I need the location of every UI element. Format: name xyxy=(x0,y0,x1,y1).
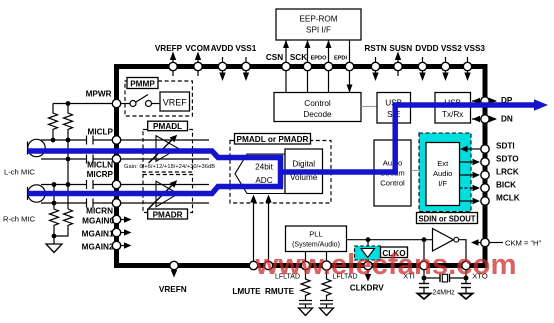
wire EPDI net (EEPROM to Control Decode) xyxy=(347,40,353,93)
PMADR block (dashed) xyxy=(143,175,193,213)
svg-text:PMADL: PMADL xyxy=(153,122,182,131)
label box PMADL xyxy=(148,121,188,131)
Audio Stream Control block xyxy=(374,140,411,206)
svg-text:VREFN: VREFN xyxy=(159,285,187,294)
ground (XTO load cap) xyxy=(460,288,473,300)
wire XTI to crystal xyxy=(423,270,425,284)
Control Decode block xyxy=(274,93,361,122)
pin MGAIN1 xyxy=(82,228,132,238)
pin SDTI xyxy=(481,142,515,154)
junction bias/MICLP xyxy=(66,138,71,143)
PLL block xyxy=(286,226,347,252)
svg-text:VSS3: VSS3 xyxy=(464,44,485,53)
pin LFLTAD (left) xyxy=(275,261,310,280)
pin MICRN xyxy=(86,199,121,216)
pin SCK xyxy=(290,53,312,71)
CLKO buffer (cyan dashed) xyxy=(355,246,381,260)
pin MCLK xyxy=(481,194,520,206)
pin LMUTE xyxy=(232,261,261,296)
svg-text:ADC: ADC xyxy=(255,176,272,185)
svg-text:LRCK: LRCK xyxy=(496,168,519,177)
pin VREFP xyxy=(155,44,183,76)
capacitor C4 (MICRN coupling) xyxy=(87,199,94,208)
ground (LFLTAD left) xyxy=(299,308,313,316)
pin VCOM xyxy=(185,44,210,76)
R-ch microphone MK2 xyxy=(28,185,46,202)
pin CSN xyxy=(266,53,290,71)
pin SDTO xyxy=(481,155,519,167)
wire PLL output to clock buffer xyxy=(347,239,433,241)
svg-text:R-ch MIC: R-ch MIC xyxy=(3,215,36,224)
svg-text:CLKDRV: CLKDRV xyxy=(350,284,385,293)
wire SDTI net (pin to Ext Audio I/F) xyxy=(460,146,481,152)
svg-text:BICK: BICK xyxy=(496,181,516,190)
PMMP block (dashed) xyxy=(125,81,192,116)
resistor R5 (LFLTAD filter) xyxy=(301,270,310,301)
crystal X1 24MHz xyxy=(424,274,466,282)
svg-text:CKM = “H”: CKM = “H” xyxy=(505,239,542,248)
wire LRCK net (Ext Audio I/F to pin) xyxy=(460,172,481,178)
svg-text:RMUTE: RMUTE xyxy=(265,287,295,296)
PMADL block (dashed) xyxy=(143,130,193,173)
svg-text:VCOM: VCOM xyxy=(185,44,210,53)
Digital Volume block xyxy=(285,149,323,194)
pin CLKDRV xyxy=(350,261,385,292)
junction XTI/crystal xyxy=(422,276,427,281)
pin VSS2 xyxy=(441,44,462,81)
svg-text:MCLK: MCLK xyxy=(496,194,520,203)
capacitor C5 (LFLTAD filter) xyxy=(299,301,312,309)
pin RMUTE xyxy=(264,261,294,296)
svg-text:Control: Control xyxy=(380,179,405,188)
pin AVDD xyxy=(211,44,234,81)
amplifier A2 (PMADR mic amp) xyxy=(149,180,178,208)
svg-text:MICLN: MICLN xyxy=(87,160,113,169)
label box SDIN or SDOUT xyxy=(417,213,478,224)
junction R2 top on MPWR rail xyxy=(66,101,71,106)
junction MICRP/column xyxy=(52,182,57,187)
wire BICK net (Ext Audio I/F to pin, dashed) xyxy=(460,185,481,191)
wire CSN net (EEPROM to Control Decode) xyxy=(283,40,289,93)
svg-text:24MHz: 24MHz xyxy=(433,290,456,297)
pin DN xyxy=(472,115,513,124)
svg-text:Digital: Digital xyxy=(292,160,315,169)
svg-text:DVDD: DVDD xyxy=(415,44,438,53)
wire MICLP net (mic to pin) xyxy=(41,139,113,141)
junction bias/MICRP xyxy=(66,182,71,187)
svg-text:I/F: I/F xyxy=(438,179,447,188)
wire XTI branch down xyxy=(423,240,425,263)
USB Tx/Rx block xyxy=(435,93,471,124)
svg-text:VSS1: VSS1 xyxy=(235,44,256,53)
svg-text:DN: DN xyxy=(501,115,513,124)
pin MICLN xyxy=(87,155,121,170)
svg-text:AVDD: AVDD xyxy=(211,44,234,53)
pin MGAIN0 xyxy=(82,215,131,225)
svg-text:SUSN: SUSN xyxy=(389,44,412,53)
svg-text:SDTO: SDTO xyxy=(496,155,519,164)
pin MPWR xyxy=(86,90,121,108)
wire CKM net (pin into chip) xyxy=(471,239,481,245)
pin CKM xyxy=(481,238,542,247)
wire MICRP to R3 column xyxy=(53,185,55,210)
svg-text:24bit: 24bit xyxy=(255,163,273,172)
ground (LFLTAD right) xyxy=(320,308,334,316)
pin DP xyxy=(472,96,513,105)
label box PMADL or PMADR xyxy=(235,134,311,145)
wire EPDO net (EEPROM to Control Decode) xyxy=(326,40,332,93)
wire CLKO branch down xyxy=(367,240,369,246)
wire MICRP net (mic to pin) xyxy=(41,184,113,186)
junction XTO/crystal xyxy=(464,276,469,281)
wire LMUTE net (pin up into ADC) xyxy=(250,195,256,264)
VREF block xyxy=(160,92,190,111)
wire RMUTE net (pin up into ADC) xyxy=(265,195,271,264)
svg-text:EPDO: EPDO xyxy=(311,56,328,62)
svg-text:RSTN: RSTN xyxy=(364,44,386,53)
svg-text:SDIN or SDOUT: SDIN or SDOUT xyxy=(419,215,476,224)
capacitor C7 (XTI load) xyxy=(419,284,429,288)
resistor R1 (L-ch bias, MPWR to MICLP) xyxy=(49,104,58,141)
pin SUSN xyxy=(389,44,412,76)
USB SIE block xyxy=(377,93,411,124)
capacitor C6 (LFLTAD filter) xyxy=(320,301,333,309)
pin LRCK xyxy=(481,168,519,180)
junction MICLP/R1 xyxy=(51,138,56,143)
svg-text:Tx/Rx: Tx/Rx xyxy=(442,110,463,119)
svg-text:Gain: 0/+6/+12/+18/+24/+30/+36: Gain: 0/+6/+12/+18/+24/+30/+36dB xyxy=(124,164,215,170)
pin MICLP xyxy=(88,128,121,145)
svg-text:Decode: Decode xyxy=(303,110,332,119)
label box PMMP xyxy=(127,78,158,89)
wire LFLTAD net 1 (PLL to pin) xyxy=(305,252,307,264)
svg-text:PLL: PLL xyxy=(309,230,323,239)
svg-text:VREF: VREF xyxy=(163,98,188,108)
svg-text:SPI I/F: SPI I/F xyxy=(306,26,331,35)
L-ch microphone MK1 xyxy=(28,139,46,156)
ground (XTI load cap) xyxy=(418,288,431,300)
wire inverter output to XTO xyxy=(459,240,466,263)
junction bias/MICLN xyxy=(66,157,71,162)
wire MICRN into PMADR xyxy=(121,202,210,204)
svg-text:SDTI: SDTI xyxy=(496,142,515,151)
svg-text:VREFP: VREFP xyxy=(155,44,183,53)
svg-text:VSS2: VSS2 xyxy=(441,44,462,53)
junction XTI branch xyxy=(422,237,427,242)
wire CLKO to CLKDRV pin xyxy=(367,260,369,263)
junction MICRN/column xyxy=(52,201,57,206)
svg-text:SCK: SCK xyxy=(290,53,307,62)
resistor R6 (LFLTAD filter) xyxy=(322,270,331,300)
svg-text:MGAIN1: MGAIN1 xyxy=(82,230,114,239)
switch SW1 (MPWR to VREF) xyxy=(121,95,161,107)
wire SCK net (EEPROM to Control Decode) xyxy=(305,40,311,93)
wire MICRN net (mic to pin) xyxy=(41,202,113,204)
Ext Audio I/F container (cyan dashed) xyxy=(419,133,471,212)
svg-text:EEP-ROM: EEP-ROM xyxy=(299,15,337,24)
svg-text:CSN: CSN xyxy=(266,53,283,62)
svg-text:Audio: Audio xyxy=(433,169,452,178)
svg-text:www.elecfans.com: www.elecfans.com xyxy=(254,249,516,281)
pin EPDI xyxy=(334,56,354,71)
wire Audio Stream Control to Ext Audio I/F xyxy=(411,170,426,172)
svg-text:MGAIN0: MGAIN0 xyxy=(82,217,114,226)
pin XTI xyxy=(403,261,428,280)
chip outline U1 (main IC body) xyxy=(117,67,486,266)
svg-text:MICRP: MICRP xyxy=(87,170,114,179)
svg-text:L-ch MIC: L-ch MIC xyxy=(4,168,35,177)
svg-text:MICRN: MICRN xyxy=(86,207,113,216)
wire Control Decode to USB SIE xyxy=(361,106,377,108)
svg-text:LMUTE: LMUTE xyxy=(232,287,261,296)
pin LFLTAD (right) xyxy=(322,261,358,281)
capacitor C8 (XTO load) xyxy=(461,284,471,288)
svg-text:PMADL or PMADR: PMADL or PMADR xyxy=(237,135,309,144)
label box PMADR xyxy=(148,209,188,220)
wire MICRP into PMADR xyxy=(121,184,210,186)
EEP-ROM SPI I/F block xyxy=(276,9,361,40)
wire MICLP into PMADL xyxy=(121,139,210,141)
wire digital stream path (blue highlight, ADC to USB DP) xyxy=(281,99,549,172)
ADC U2 (24bit ADC) xyxy=(235,154,285,194)
capacitor C1 (MICLP coupling) xyxy=(87,136,94,145)
wire LFLTAD net 2 (PLL to pin) xyxy=(326,252,328,264)
resistor R3 (R-ch termination) xyxy=(50,209,59,236)
wire SDTO net (Ext Audio I/F to pin) xyxy=(460,159,481,165)
pin VSS3 xyxy=(463,44,485,81)
wire MCLK net (Ext Audio I/F to pin) xyxy=(460,198,481,204)
wire MICLN into PMADL xyxy=(121,158,210,160)
svg-text:Control: Control xyxy=(304,99,331,108)
label box CLKO xyxy=(381,247,408,258)
Ext Audio I/F block xyxy=(426,143,460,206)
resistor R2 (bias, MPWR column) xyxy=(64,104,73,132)
wire MICLN net (mic to pin) xyxy=(41,158,113,160)
junction ground node xyxy=(52,234,57,239)
inverter U3 (crystal oscillator) xyxy=(433,229,459,252)
svg-text:MICLP: MICLP xyxy=(88,128,114,137)
pin VSS1 xyxy=(235,44,256,81)
pin MICRP xyxy=(87,170,121,189)
svg-text:PMMP: PMMP xyxy=(130,80,155,89)
pin DVDD xyxy=(415,44,438,81)
ground (R-ch mic network) xyxy=(46,236,62,253)
pin EPDO xyxy=(311,56,333,71)
svg-text:PMADR: PMADR xyxy=(153,211,183,220)
pin MGAIN2 xyxy=(82,241,132,251)
svg-text:MGAIN2: MGAIN2 xyxy=(82,243,114,252)
wire XTO to crystal xyxy=(465,270,467,284)
svg-text:EPDI: EPDI xyxy=(334,56,348,62)
svg-text:MPWR: MPWR xyxy=(86,90,112,99)
capacitor C2 (MICLN coupling) xyxy=(87,155,94,164)
wire R-ch signal path (blue highlight) xyxy=(28,187,283,194)
pin VREFN xyxy=(159,261,187,294)
amplifier A1 (PMADL mic amp) xyxy=(149,135,178,163)
resistor R4 (R-ch termination) xyxy=(54,209,73,236)
capacitor C3 (MICRP coupling) xyxy=(87,180,94,189)
wire bias column (R2 down to MICRP) xyxy=(67,131,69,209)
junction CLKO branch xyxy=(366,237,371,242)
pin RSTN xyxy=(364,44,386,81)
wire MPWR bias rail xyxy=(53,103,112,105)
svg-text:Ext: Ext xyxy=(437,159,449,168)
PMADL or PMADR block (dashed) xyxy=(230,141,331,204)
pin BICK xyxy=(481,181,516,193)
svg-text:(System/Audio): (System/Audio) xyxy=(292,242,340,249)
pin XTO xyxy=(462,261,488,280)
wire L-ch signal path (blue highlight) xyxy=(28,151,281,187)
